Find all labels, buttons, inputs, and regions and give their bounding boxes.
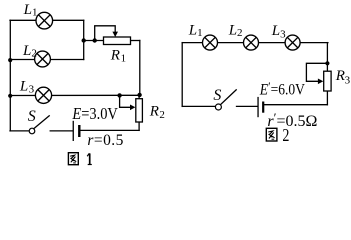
svg-text:L: L bbox=[23, 2, 32, 18]
wire: R2 top connector bbox=[138, 95, 140, 99]
svg-text:R: R bbox=[110, 48, 120, 64]
svg-text:3: 3 bbox=[345, 75, 351, 87]
svg-text:1: 1 bbox=[197, 27, 203, 39]
wire: R2 slider bracket bbox=[120, 95, 131, 107]
wire: switch to battery bbox=[237, 105, 258, 107]
wire: node A to R1 left bbox=[84, 40, 104, 42]
wire: left vertical bus bbox=[9, 20, 11, 131]
R3 slider arrowhead bbox=[318, 79, 323, 85]
switch S1 blade bbox=[34, 116, 50, 129]
battery E (fig1) long plate bbox=[73, 121, 74, 141]
wire: R3 bottom vertical bbox=[326, 91, 328, 105]
caption digit 1 (fig1) bbox=[87, 153, 92, 164]
svg-text:1: 1 bbox=[121, 53, 127, 65]
wire: R1 right to right bus bbox=[131, 40, 140, 42]
svg-text:E=3.0V: E=3.0V bbox=[71, 105, 118, 123]
node A: L1/L2 join bbox=[82, 38, 86, 42]
wire: right vertical top to R3 bbox=[326, 43, 328, 72]
lamp L1 (fig1) bbox=[36, 12, 53, 29]
lamp L2 (fig2) bbox=[244, 35, 259, 50]
svg-text:S: S bbox=[28, 108, 36, 125]
svg-text:S: S bbox=[213, 87, 221, 104]
wire: top series line bbox=[182, 42, 328, 44]
svg-text:3: 3 bbox=[29, 83, 35, 95]
wire: L3 branch horizontal bbox=[10, 94, 139, 96]
svg-text:2: 2 bbox=[159, 109, 165, 121]
switch S2 terminal circle bbox=[215, 104, 221, 110]
node: R3 slider tap bbox=[325, 61, 329, 65]
battery E (fig1) short thick plate bbox=[78, 125, 80, 137]
svg-text:L: L bbox=[271, 23, 280, 39]
wire: bottom bus right of battery bbox=[81, 129, 140, 131]
wire: switch circle to left bus bbox=[10, 130, 29, 132]
switch S2 blade bbox=[221, 90, 236, 105]
resistor R1 (rheostat body) bbox=[104, 37, 131, 45]
svg-text:2: 2 bbox=[31, 48, 37, 60]
svg-text:R: R bbox=[335, 68, 345, 84]
svg-text:L: L bbox=[22, 43, 31, 59]
wire: left vertical bbox=[181, 43, 183, 107]
svg-text:L: L bbox=[228, 23, 237, 39]
wire: L2 branch vertical up to node A bbox=[83, 41, 85, 60]
wire: L1 branch horizontal bbox=[10, 19, 84, 21]
wire: R1 slider bracket bbox=[95, 26, 116, 41]
wire: L2 branch horizontal bbox=[10, 59, 84, 61]
R1 slider arrowhead bbox=[112, 32, 118, 37]
wire: battery left to switch bbox=[50, 130, 73, 132]
svg-text:R: R bbox=[149, 104, 159, 120]
battery E' (fig2) short thick plate bbox=[262, 102, 264, 113]
wire: bottom left to switch bbox=[182, 105, 216, 107]
svg-text:r=0.5: r=0.5 bbox=[87, 132, 123, 149]
svg-text:2: 2 bbox=[237, 27, 243, 39]
caption glyph 图 (fig1) bbox=[68, 153, 78, 165]
node: L3 tap on left bus bbox=[8, 94, 12, 98]
wire: L1 branch vertical down to node A bbox=[83, 20, 85, 40]
svg-text:2: 2 bbox=[282, 126, 289, 145]
battery E' (fig2) long plate bbox=[257, 97, 258, 117]
node D: R2 top bbox=[137, 93, 141, 97]
lamp L1 (fig2) bbox=[203, 35, 218, 50]
resistor R3 (rheostat body) bbox=[324, 71, 331, 91]
node B: R1 slider tap bbox=[93, 38, 97, 42]
svg-text:L: L bbox=[19, 78, 28, 94]
wire: battery right to R3 bottom corner bbox=[264, 104, 327, 106]
svg-text:3: 3 bbox=[280, 29, 286, 41]
svg-text:E′=6.0V: E′=6.0V bbox=[259, 79, 306, 98]
wire: right vertical bus down to L3 row bbox=[139, 41, 141, 96]
node: L2 tap on left bus bbox=[8, 58, 12, 62]
node C: R2 slider tap bbox=[117, 93, 121, 97]
wire: R2 bottom down to bottom bus bbox=[138, 122, 140, 130]
svg-text:1: 1 bbox=[32, 6, 38, 18]
wire: R3 slider bracket bbox=[306, 63, 327, 81]
svg-text:L: L bbox=[188, 23, 197, 39]
switch S1 terminal circle bbox=[29, 128, 35, 134]
resistor R2 (rheostat body) bbox=[136, 99, 143, 122]
lamp L2 (fig1) bbox=[35, 51, 51, 67]
lamp L3 (fig1) bbox=[35, 87, 51, 103]
caption glyph 图 (fig2) bbox=[266, 128, 277, 141]
R2 slider arrowhead bbox=[130, 105, 135, 111]
lamp L3 (fig2) bbox=[285, 35, 300, 50]
